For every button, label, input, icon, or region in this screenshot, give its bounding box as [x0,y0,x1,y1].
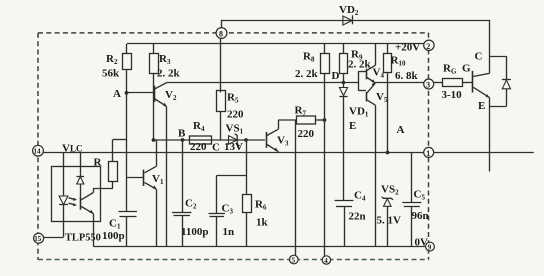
svg-text:9: 9 [428,244,432,252]
svg-text:2. 2k: 2. 2k [348,59,372,71]
svg-text:1100p: 1100p [181,226,209,238]
svg-text:8: 8 [219,30,223,39]
node A [113,88,128,100]
svg-text:V1: V1 [152,173,164,186]
resistor RG [442,63,473,102]
svg-text:220: 220 [190,141,207,153]
svg-text:96n: 96n [412,210,429,222]
module dashed border [38,33,429,260]
svg-text:1: 1 [426,149,430,158]
opto photodiode [77,152,85,197]
terminal 14 [33,145,44,156]
wire: pin 8 down to R5 [220,38,222,92]
transistor V3 [267,129,289,151]
svg-text:56k: 56k [102,68,120,80]
resistor R [94,139,118,188]
svg-text:14: 14 [34,148,42,156]
transistor V4 [367,65,385,83]
wire: V1 emitter down to 0V rail [156,189,158,246]
wire: B node line [154,139,265,141]
resistor R4 [190,120,212,153]
svg-text:V4: V4 [373,67,385,80]
resistor R3 [150,44,181,140]
svg-text:B: B [178,128,186,140]
svg-text:A: A [113,88,121,100]
svg-text:VD1: VD1 [349,106,369,119]
wire: V1 collector riser to B line [156,140,158,166]
wire: VD1 down to C4 [343,96,345,201]
svg-text:C1: C1 [109,218,121,231]
svg-text:R4: R4 [193,120,205,133]
transistor V5 [367,83,388,106]
terminal 15 [34,233,44,243]
svg-text:22n: 22n [349,211,366,223]
svg-text:+20V: +20V [395,42,420,54]
wire: R7 line [278,119,296,121]
resistor R6 [243,195,269,247]
node at R3 bottom [152,138,156,142]
svg-text:R3: R3 [159,53,171,66]
svg-text:R: R [94,157,103,169]
resistor R7 [295,105,325,141]
freewheel diode [490,56,511,106]
svg-text:R7: R7 [295,105,307,118]
svg-text:E: E [478,100,485,112]
wire: +20V top rail [127,43,424,45]
opto phototransistor [81,193,94,214]
svg-text:13V: 13V [224,141,243,153]
wire: pin 5 column [295,120,297,255]
svg-text:VS1: VS1 [226,123,244,136]
IGBT V [462,51,490,113]
svg-text:2. 2k: 2. 2k [295,68,319,80]
node R7/R8 [323,118,327,122]
zener VS1 [224,123,244,153]
push-pull base tie [359,71,367,91]
wire: V5 collector down to 0V rail [375,105,377,246]
svg-text:1n: 1n [223,226,235,238]
svg-text:5. 1V: 5. 1V [377,215,402,227]
diode VD2 [339,4,359,25]
resistor R2 [102,44,132,93]
wire: pin 15 to LED cathode [44,237,64,239]
wire: node A column down to C1 [113,93,127,212]
svg-text:6. 8k: 6. 8k [395,70,419,82]
wire: V4 collector riser to +rail [375,44,377,65]
wire: R8 bottom through node to pin 4 [324,74,326,257]
svg-text:E: E [349,120,356,132]
svg-text:C: C [475,51,483,63]
svg-text:C3: C3 [222,203,234,216]
svg-text:R2: R2 [106,53,118,66]
terminal 3 [424,79,434,90]
node B [178,128,186,142]
svg-text:2. 2k: 2. 2k [157,68,181,80]
svg-text:V5: V5 [376,91,388,104]
svg-text:R5: R5 [227,92,239,105]
terminal 4 [322,256,330,265]
resistor R5 [217,91,245,141]
transistor V2 [155,83,177,107]
svg-text:1k: 1k [256,217,269,229]
wire: opto emitter to 0V rail [93,214,95,247]
svg-text:VLC: VLC [62,143,82,155]
capacitor C4 [335,190,366,247]
svg-text:C4: C4 [354,190,366,203]
svg-text:3: 3 [426,81,430,90]
svg-text:220: 220 [227,109,244,121]
wire: opto collector to R [93,188,113,193]
svg-text:V2: V2 [165,89,177,102]
svg-text:C5: C5 [414,189,426,202]
svg-text:R6: R6 [255,199,267,212]
capacitor C2 [172,140,209,246]
terminal 9 [426,242,435,251]
svg-text:V3: V3 [277,135,289,148]
node VS1/V3 [244,138,248,142]
svg-text:4: 4 [324,257,328,265]
svg-text:R8: R8 [303,51,315,64]
node D [332,70,346,84]
opto LED [59,152,68,237]
resistor R8 [295,44,330,80]
wire: V3 collector riser and emitter to rail [278,120,280,152]
transistor V1 [127,166,164,189]
svg-text:RG: RG [443,63,457,76]
zener VS2 [377,184,402,247]
svg-text:3-10: 3-10 [442,89,463,101]
terminal 1 [424,147,434,158]
wire: IGBT collector riser [489,20,491,74]
svg-text:R10: R10 [391,55,406,68]
svg-text:G: G [462,63,471,75]
optocoupler box TLP550 [52,167,101,244]
capacitor C1 [102,212,137,247]
svg-text:5: 5 [292,257,296,265]
svg-text:C: C [212,142,220,154]
node at VE rail / VS2 [386,151,390,155]
terminal 5 [290,255,299,265]
terminal 8 [216,28,227,39]
resistor R9 [340,44,372,83]
wire: V2 emitter down to 0V rail [166,107,168,247]
wire: node A to V2 base [127,92,154,94]
wire: base drive line V2 collector to push-pull [167,82,359,84]
svg-text:15: 15 [34,235,42,243]
wire: 0V rail [93,246,426,248]
capacitor C3 [209,175,235,246]
wire: gate output line to pin 3 [375,82,424,84]
svg-text:A: A [397,124,405,136]
svg-text:VD2: VD2 [339,4,359,17]
diode VD1 [339,83,368,119]
svg-text:D: D [332,70,340,82]
resistor R10 [384,44,419,153]
svg-text:C2: C2 [185,198,197,211]
wire: gate line pin 3 to RG [434,82,443,84]
wire: node down to C3 elbow and R6 [217,140,247,194]
svg-text:TLP550: TLP550 [65,232,101,243]
svg-text:220: 220 [298,128,315,140]
svg-text:VS2: VS2 [381,184,399,197]
svg-text:2: 2 [426,42,430,51]
terminal 2 [424,40,434,51]
opto light arrows [69,198,78,207]
wire: VE mid rail [44,152,534,154]
wire: IGBT emitter drop [489,98,491,172]
svg-text:100p: 100p [102,230,125,242]
capacitor C5 [402,152,428,246]
wire: top line from pin 8 to collector riser [222,20,490,28]
